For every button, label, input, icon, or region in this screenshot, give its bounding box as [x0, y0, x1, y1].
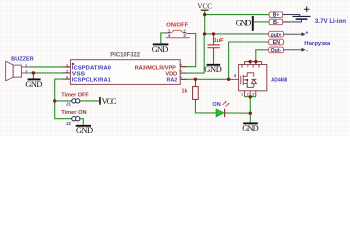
wire switch pin2 to IC RA3/MCLR	[180, 34, 196, 67]
led light arrows	[223, 102, 229, 107]
ground right of J2	[76, 126, 93, 135]
svg-text:VCC: VCC	[197, 1, 212, 10]
svg-text:GND: GND	[76, 126, 93, 135]
wire buzzer pin2 drop to ground	[32, 73, 34, 79]
svg-text:2: 2	[247, 93, 249, 97]
svg-text:VDD: VDD	[165, 71, 177, 77]
svg-text:GND: GND	[204, 65, 222, 74]
svg-text:J2: J2	[66, 121, 72, 127]
left pin stubs	[63, 67, 70, 79]
port out+	[269, 31, 284, 38]
node A: VCC / B+	[203, 13, 206, 16]
svg-text:J1: J1	[66, 102, 72, 108]
wire switch pin1 to ground	[161, 33, 168, 44]
svg-text:-: -	[306, 48, 308, 54]
base line	[166, 37, 190, 39]
top pin stubs 8 7 6 5	[245, 62, 262, 65]
wire Out- port down to mosfet drain rail	[256, 50, 269, 62]
svg-text:5: 5	[258, 65, 260, 69]
svg-text:EN: EN	[273, 40, 281, 46]
svg-text:3: 3	[252, 93, 254, 97]
mosfet internal symbol	[241, 73, 257, 88]
ground under ON/OFF switch	[152, 44, 169, 53]
svg-text:GND: GND	[242, 124, 259, 133]
svg-text:Нагрузка: Нагрузка	[304, 41, 331, 47]
node C: cap tap	[212, 32, 215, 35]
svg-text:2: 2	[179, 70, 183, 72]
svg-text:PIC10F322: PIC10F322	[110, 52, 140, 59]
wire LED cathode to junction	[225, 112, 251, 114]
svg-text:out+: out+	[271, 32, 282, 38]
power VCC top	[197, 1, 212, 10]
node D: RA2 / resistor	[194, 78, 197, 81]
wire J1 to VCC port	[80, 100, 100, 102]
svg-text:3: 3	[179, 64, 183, 66]
svg-text:1: 1	[241, 93, 243, 97]
node B: VCC rail / VDD	[203, 32, 206, 35]
wire resistor bottom to LED	[195, 103, 216, 113]
power VCC right of J1 (rotated bar)	[100, 97, 117, 106]
ground under buzzer	[25, 79, 42, 89]
svg-text:8: 8	[241, 65, 243, 69]
wire junction A down to junction B	[204, 15, 206, 34]
battery BT1 3.7V Li-ion	[283, 15, 300, 17]
wire IC RA2 to gate junction	[180, 78, 230, 80]
wire mosfet drain rail	[244, 61, 261, 63]
arrow Out- to load	[284, 49, 302, 51]
svg-text:B+: B+	[273, 13, 279, 19]
svg-text:BUZZER: BUZZER	[11, 56, 34, 62]
actuator lever	[172, 30, 182, 32]
wire EN port down to gate junction	[229, 42, 269, 79]
gate pin stub 4	[229, 78, 239, 80]
node drain rail dot 2	[254, 60, 257, 63]
svg-text:GND: GND	[25, 80, 42, 89]
svg-text:VCC: VCC	[102, 97, 117, 106]
ground under mosfet	[242, 123, 259, 133]
wire VCC symbol down to junction A	[204, 11, 206, 15]
svg-text:VSS: VSS	[72, 71, 85, 77]
wire buzzer pin1 to IC pin1	[30, 66, 71, 68]
mosfet Q1 AD4468	[239, 65, 267, 91]
svg-text:6: 6	[252, 65, 254, 69]
svg-text:RA2: RA2	[167, 78, 178, 84]
svg-text:RA3/MCLR/VPP: RA3/MCLR/VPP	[135, 65, 176, 71]
wire junction B down then left to IC VDD	[180, 34, 204, 73]
wire mosfet source down to LED junction	[249, 97, 251, 114]
wire junction A to B+ port	[205, 14, 269, 16]
svg-text:1: 1	[25, 63, 28, 68]
wire buzzer pin2 to IC pin2 (VSS)	[30, 72, 71, 74]
svg-text:1uF: 1uF	[214, 38, 225, 44]
background grid	[0, 0, 350, 136]
svg-text:GND: GND	[152, 45, 169, 54]
svg-text:2: 2	[25, 69, 28, 74]
svg-text:Timer ON: Timer ON	[61, 110, 86, 116]
wire LED junction down to ground	[249, 113, 251, 122]
wire junction B to cap junction C and out+ port	[205, 33, 269, 35]
svg-text:3.7V Li-ion: 3.7V Li-ion	[315, 18, 346, 25]
wire junction branch to J1	[55, 100, 72, 102]
port Out-	[269, 47, 284, 54]
node E: gate junction	[227, 78, 230, 81]
svg-text:4: 4	[179, 76, 183, 78]
svg-text:1k: 1k	[182, 88, 189, 94]
arrow out+ to load	[284, 33, 302, 35]
port EN	[269, 39, 284, 46]
pin1 marker dot	[72, 63, 74, 65]
svg-text:ICSPDAT/RA0: ICSPDAT/RA0	[72, 65, 111, 71]
node LED / source column	[249, 112, 252, 115]
svg-text:AD4468: AD4468	[271, 77, 287, 83]
right pin stubs	[180, 67, 186, 80]
svg-text:ICSPCLK/RA1: ICSPCLK/RA1	[72, 78, 112, 84]
ground left of B- (rotated bar)	[236, 16, 253, 31]
wire IC pin3 to timer jumpers	[55, 79, 72, 119]
wire mosfet source rail	[244, 96, 256, 98]
port B+	[269, 12, 283, 19]
wire B- port to ground bar	[254, 21, 269, 23]
bottom pin stubs 1 2 3	[245, 91, 256, 97]
svg-text:Out-: Out-	[271, 48, 282, 54]
port B-	[269, 19, 283, 26]
node timer jumpers split	[53, 99, 56, 102]
svg-text:Timer OFF: Timer OFF	[61, 92, 89, 98]
svg-text:7: 7	[247, 65, 249, 69]
node source rail dot	[249, 95, 252, 98]
svg-text:ON: ON	[212, 102, 220, 108]
ground under 1uF cap	[204, 65, 222, 74]
svg-text:B-: B-	[273, 20, 279, 26]
node drain rail dot 1	[249, 60, 252, 63]
node buzzer pin2 / GND	[32, 71, 35, 74]
svg-text:GND: GND	[236, 19, 252, 28]
wire J2 to ground	[80, 119, 83, 125]
